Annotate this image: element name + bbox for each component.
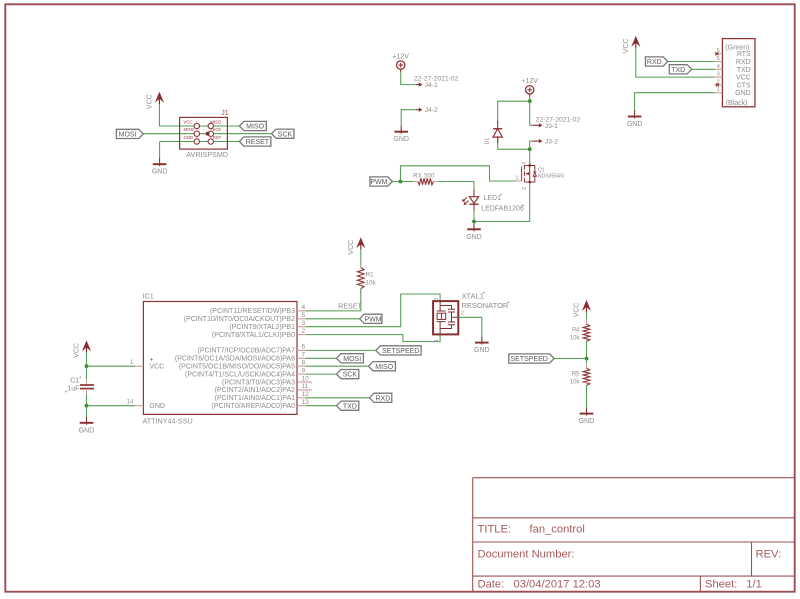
- ground GND (LED): [473, 223, 475, 231]
- wire node to R5: [586, 359, 588, 369]
- junction drain rail: [528, 147, 532, 151]
- svg-text:GND: GND: [466, 234, 482, 241]
- connector FTDI (serial header): [722, 39, 755, 107]
- svg-text:NDS355AN: NDS355AN: [538, 174, 564, 180]
- svg-text:SETSPEED: SETSPEED: [511, 356, 548, 363]
- svg-text:AVRISPSMD: AVRISPSMD: [186, 150, 228, 159]
- net label SCK (IC): [337, 370, 359, 379]
- wire +12V down: [529, 97, 531, 101]
- junction at J1 SCK pad: [206, 132, 210, 136]
- supply +12V (J4): [397, 61, 405, 69]
- wire R3 to LED: [439, 181, 475, 183]
- svg-text:(PCINT10/INT0/OC0A/CKOUT)PB2: (PCINT10/INT0/OC0A/CKOUT)PB2: [184, 316, 295, 323]
- svg-text:SCK: SCK: [343, 372, 358, 379]
- svg-text:1: 1: [515, 176, 518, 182]
- svg-text:GND: GND: [735, 90, 751, 97]
- svg-text:10k: 10k: [570, 335, 581, 341]
- svg-text:+: +: [360, 300, 363, 306]
- svg-text:VCC: VCC: [146, 94, 153, 109]
- svg-text:14: 14: [127, 400, 134, 406]
- connector pin J4-1: [416, 84, 421, 86]
- wire VCC to IC1 pin1: [87, 365, 136, 367]
- svg-text:(PCINT7/ICP/OC0B/ADC7)PA7: (PCINT7/ICP/OC0B/ADC7)PA7: [197, 348, 295, 355]
- svg-text:(PCINT9/XTAL2)PB1: (PCINT9/XTAL2)PB1: [229, 324, 295, 331]
- IC1 pin 14 GND: [135, 405, 143, 407]
- net label PWM (driver): [370, 177, 392, 186]
- svg-text:(PCINT3/T0/ADC3)PA3: (PCINT3/T0/ADC3)PA3: [222, 379, 295, 386]
- svg-text:+12V: +12V: [392, 54, 409, 61]
- svg-text:J4-1: J4-1: [425, 82, 438, 89]
- FTDI pin 1 GND: [715, 92, 723, 94]
- IC1 pin 2 PB0: [297, 334, 306, 336]
- net label RXD (FTDI): [645, 57, 667, 66]
- IC IC1 ATTINY44-SSU: [143, 302, 297, 415]
- wire J1 GND down: [159, 142, 161, 159]
- wire J3-2 to drain rail: [530, 141, 533, 149]
- resistor R4 10k: [586, 319, 588, 346]
- ground GND (XTAL1): [481, 337, 483, 345]
- resistor R5 10k: [586, 363, 588, 390]
- svg-text:PWM: PWM: [364, 316, 381, 323]
- svg-text:(PCINT1/AIN0/ADC1)PA1: (PCINT1/AIN0/ADC1)PA1: [215, 395, 295, 402]
- svg-text:+: +: [500, 193, 503, 199]
- svg-text:MISO: MISO: [246, 124, 264, 131]
- svg-text:GND: GND: [149, 403, 165, 410]
- svg-text:(PCINT8/XTAL1/CLKI)PB0: (PCINT8/XTAL1/CLKI)PB0: [212, 332, 295, 339]
- diode D1: [497, 121, 499, 129]
- svg-text:TXD: TXD: [343, 403, 357, 410]
- wire J4-2 to GND: [401, 110, 416, 126]
- wire GND to J1: [160, 141, 180, 143]
- svg-text:9: 9: [302, 367, 306, 374]
- svg-text:REV:: REV:: [756, 549, 782, 561]
- IC1 pin 4 PB3: [297, 310, 306, 312]
- wire IC1 pin5 to PWM label: [306, 318, 360, 320]
- net label SETSPEED (IC): [376, 346, 421, 355]
- svg-text:11: 11: [302, 383, 309, 390]
- wire R4 to node: [586, 341, 588, 358]
- wire +12V to J4-1: [401, 72, 416, 85]
- svg-text:6: 6: [302, 344, 306, 351]
- svg-text:J4-2: J4-2: [425, 107, 438, 114]
- wire TXD to FTDI: [692, 68, 715, 70]
- wire C1 to GND node: [86, 395, 88, 406]
- LED LED1 LEDFAB1206: [473, 190, 475, 197]
- svg-text:1uF: 1uF: [67, 386, 79, 393]
- resistor R1 10k: [360, 263, 362, 294]
- svg-text:22-27-2021-02: 22-27-2021-02: [536, 116, 581, 123]
- svg-text:CTS: CTS: [737, 82, 751, 89]
- svg-text:GND: GND: [152, 169, 168, 176]
- IC1 pin 6 PA7: [297, 349, 306, 351]
- wire J1 MISO row: [180, 125, 240, 127]
- net label SCK: [272, 129, 294, 138]
- svg-text:1: 1: [130, 360, 134, 366]
- svg-text:ATTINY44-SSU: ATTINY44-SSU: [143, 416, 193, 425]
- svg-text:(PCINT2/AIN1/ADC2)PA2: (PCINT2/AIN1/ADC2)PA2: [215, 387, 295, 394]
- svg-text:D1: D1: [485, 138, 491, 145]
- svg-text:RXD: RXD: [376, 395, 391, 402]
- svg-text:RTS: RTS: [737, 51, 751, 58]
- wire VCC down: [86, 352, 88, 366]
- wire D1 anode to drain rail: [498, 136, 530, 149]
- ground GND (C1): [86, 417, 88, 425]
- svg-text:J3-1: J3-1: [545, 123, 558, 130]
- FTDI pin 4 TXD: [715, 68, 723, 70]
- svg-text:1: 1: [717, 87, 720, 93]
- resistor R3 500: [413, 181, 439, 183]
- IC1 pin 12 PA1: [297, 397, 306, 399]
- ground GND (J4): [400, 126, 402, 134]
- svg-text:J1: J1: [221, 110, 229, 117]
- svg-text:VCC: VCC: [574, 303, 581, 318]
- svg-text:7: 7: [302, 352, 306, 359]
- svg-text:TXD: TXD: [671, 67, 685, 74]
- svg-text:Sheet:: Sheet:: [705, 578, 737, 590]
- net label MOSI (IC): [337, 354, 364, 363]
- svg-text:MOSI: MOSI: [184, 127, 195, 132]
- svg-text:+: +: [79, 375, 82, 381]
- title block: [473, 478, 795, 592]
- net label MISO: [239, 121, 266, 130]
- net label TXD (IC): [337, 401, 359, 410]
- svg-text:MOSI: MOSI: [119, 132, 137, 139]
- svg-text:+: +: [150, 357, 154, 363]
- svg-text:R1: R1: [366, 273, 374, 279]
- svg-text:(PCINT11/RESET/DW)PB3: (PCINT11/RESET/DW)PB3: [210, 308, 295, 315]
- ground GND (FTDI): [634, 111, 636, 119]
- svg-text:RESET: RESET: [246, 139, 270, 146]
- svg-text:10k: 10k: [366, 281, 377, 287]
- junction PWM node: [399, 180, 403, 184]
- wire IC1 pin7 to MOSI label: [306, 357, 337, 359]
- svg-text:10: 10: [302, 375, 310, 382]
- supply VCC (R1): [360, 240, 362, 250]
- svg-text:(Black): (Black): [726, 100, 748, 107]
- svg-text:+: +: [507, 300, 510, 306]
- svg-text:GND: GND: [627, 121, 643, 128]
- wire PWM to Q1 gate: [401, 166, 516, 182]
- supply VCC (R4): [586, 303, 588, 313]
- svg-text:22-27-2021-02: 22-27-2021-02: [414, 76, 459, 83]
- wire LED1 to ground node: [473, 210, 475, 222]
- wire SETSPEED label to node: [554, 358, 586, 360]
- wire to C1 top: [86, 366, 88, 381]
- svg-text:LEDFAB1206: LEDFAB1206: [481, 206, 524, 213]
- svg-text:VCC: VCC: [348, 240, 355, 255]
- svg-text:4: 4: [717, 64, 720, 70]
- svg-text:3: 3: [522, 161, 528, 164]
- svg-text:SCK: SCK: [212, 127, 221, 132]
- wire IC1 pin3 to XTAL1 pin3: [306, 294, 441, 327]
- wire FTDI GND down: [635, 93, 715, 111]
- ground GND (R5): [586, 408, 588, 416]
- svg-text:VCC: VCC: [623, 39, 630, 54]
- svg-text:GND: GND: [79, 427, 95, 434]
- transistor Q1 NDS355AN: [522, 164, 537, 184]
- IC1 pin 9 PA4: [297, 373, 306, 375]
- supply VCC (FTDI): [635, 39, 637, 49]
- wire GND to IC1 pin14: [87, 405, 136, 407]
- svg-text:R4: R4: [572, 327, 580, 333]
- svg-text:5: 5: [302, 312, 306, 319]
- svg-text:SETSPEED: SETSPEED: [382, 348, 419, 355]
- wire VCC to R4: [586, 312, 588, 324]
- wire PWM to junction: [392, 181, 400, 183]
- svg-text:LED1: LED1: [484, 195, 502, 202]
- svg-text:SCK: SCK: [278, 131, 293, 138]
- wire VCC to J1: [159, 103, 179, 126]
- svg-text:RXD: RXD: [647, 59, 662, 66]
- svg-text:R3: R3: [413, 174, 421, 180]
- wire down to LED1: [473, 182, 475, 193]
- wire down to GND: [86, 406, 88, 417]
- wire +12V to J3-1: [530, 101, 533, 125]
- net label MOSI: [116, 129, 143, 138]
- junction LED ground node: [472, 220, 476, 224]
- connector J1 AVRISPSMD: [180, 117, 228, 149]
- svg-text:MISO: MISO: [375, 364, 393, 371]
- junction +12V rail: [528, 99, 532, 103]
- wire Q1 source to ground node: [474, 183, 530, 222]
- svg-text:5: 5: [717, 56, 720, 62]
- IC1 pin 7 PA6: [297, 357, 306, 359]
- svg-text:2: 2: [461, 311, 464, 317]
- svg-text:(PCINT5/OC1B/MISO/DO/ADC5)PA5: (PCINT5/OC1B/MISO/DO/ADC5)PA5: [179, 364, 295, 371]
- svg-text:J3-2: J3-2: [545, 139, 558, 146]
- svg-text:13: 13: [302, 399, 310, 406]
- wire J1 RESET row: [180, 141, 240, 143]
- net label SETSPEED (divider): [509, 354, 554, 363]
- svg-text:GND: GND: [474, 347, 490, 354]
- junction SETSPEED node: [585, 357, 589, 361]
- svg-text:VCC: VCC: [184, 119, 193, 124]
- svg-text:Date:: Date:: [478, 578, 505, 590]
- wire IC1 pin13 to TXD label: [306, 405, 337, 407]
- wire RXD to FTDI: [668, 61, 715, 63]
- svg-text:1/1: 1/1: [746, 578, 762, 590]
- svg-text:PWM: PWM: [370, 179, 387, 186]
- svg-text:(PCINT6/OC1A/SDA/MOSI/ADC6)PA6: (PCINT6/OC1A/SDA/MOSI/ADC6)PA6: [175, 356, 295, 363]
- svg-text:RST: RST: [213, 135, 222, 140]
- IC1 pin 13 PA0: [297, 405, 306, 407]
- svg-text:VCC: VCC: [149, 364, 164, 371]
- wire J1 SCK row: [180, 133, 272, 135]
- connector pin J3-1: [532, 124, 540, 126]
- IC1 pin 1 VCC: [135, 365, 143, 367]
- wire R5 to GND: [586, 386, 588, 409]
- FTDI pin 5 RXD: [715, 61, 723, 63]
- IC1 pin 11 PA2: [297, 389, 312, 391]
- svg-text:RXD: RXD: [736, 59, 751, 66]
- capacitor C1 1uF: [86, 379, 88, 385]
- svg-text:Document Number:: Document Number:: [478, 549, 575, 561]
- wire MOSI to J1: [143, 133, 179, 135]
- wire VCC to R1: [360, 249, 362, 268]
- svg-text:TXD: TXD: [737, 67, 751, 74]
- IC1 pin 5 PB2: [297, 318, 306, 320]
- svg-text:(PCINT4/T1/SCL/USCK/ADC4)PA4: (PCINT4/T1/SCL/USCK/ADC4)PA4: [185, 371, 295, 378]
- svg-text:GND: GND: [579, 418, 595, 425]
- svg-text:GND: GND: [184, 135, 194, 140]
- svg-text:MISO: MISO: [210, 119, 222, 124]
- svg-text:+: +: [522, 203, 525, 209]
- wire PWM to R3: [401, 181, 414, 183]
- svg-text:GND: GND: [393, 136, 409, 143]
- svg-text:12: 12: [302, 391, 310, 398]
- resonator XTAL1 RESONATOR: [433, 301, 458, 334]
- supply +12V (J3): [526, 86, 534, 94]
- net label MISO (IC): [369, 362, 396, 371]
- FTDI pin 3 VCC: [715, 76, 723, 78]
- wire to Q1 drain: [529, 149, 531, 164]
- svg-text:fan_control: fan_control: [530, 523, 585, 535]
- svg-text:MOSI: MOSI: [343, 356, 361, 363]
- svg-text:IC1: IC1: [143, 292, 154, 301]
- svg-text:+: +: [65, 390, 68, 396]
- svg-text:4: 4: [302, 304, 306, 311]
- net label TXD (FTDI): [669, 65, 691, 74]
- no-connect mark RTS: [715, 52, 718, 55]
- no-connect mark CTS: [716, 83, 719, 86]
- wire XTAL1 pin2 to GND: [458, 317, 482, 336]
- wire IC1 pin6 to SETSPEED label: [306, 349, 376, 351]
- wire IC1 pin8 to MISO label: [306, 365, 369, 367]
- connector pin J4-2: [416, 109, 421, 111]
- IC1 pin 8 PA5: [297, 365, 306, 367]
- FTDI pin 2 CTS: [715, 84, 723, 86]
- net label RESET: [239, 137, 271, 146]
- svg-text:10k: 10k: [570, 379, 581, 385]
- wire R1 to IC1 pin4 RESET: [306, 289, 361, 311]
- supply VCC (C1): [86, 343, 88, 353]
- svg-text:VCC: VCC: [74, 343, 81, 358]
- wire to D1 cathode: [498, 101, 530, 122]
- svg-text:(PCINT0/AREF/ADC0)PA0: (PCINT0/AREF/ADC0)PA0: [212, 403, 296, 410]
- svg-text:8: 8: [302, 360, 306, 367]
- svg-text:TITLE:: TITLE:: [478, 523, 512, 535]
- svg-text:+: +: [483, 290, 486, 296]
- wire VCC to FTDI: [636, 48, 715, 78]
- svg-text:500: 500: [424, 174, 435, 180]
- svg-text:+12V: +12V: [521, 78, 538, 85]
- svg-text:RESONATOR: RESONATOR: [462, 301, 509, 310]
- IC1 pin 10 PA3: [297, 381, 312, 383]
- ground GND (J1): [159, 158, 161, 166]
- supply VCC (J1): [158, 95, 160, 105]
- wire IC1 pin2 to XTAL1 pin1: [306, 334, 441, 341]
- svg-text:1: 1: [434, 339, 440, 342]
- svg-text:3: 3: [434, 298, 440, 301]
- svg-text:VCC: VCC: [736, 75, 751, 82]
- wire IC1 pin12 to RXD label: [306, 397, 370, 399]
- FTDI pin 6 RTS: [715, 53, 723, 55]
- IC1 pin 3 PB1: [297, 326, 306, 328]
- svg-text:2: 2: [522, 187, 528, 190]
- svg-text:XTAL1: XTAL1: [462, 291, 484, 300]
- svg-text:3: 3: [302, 320, 306, 327]
- net label PWM (IC): [360, 314, 382, 323]
- svg-text:2: 2: [302, 328, 306, 335]
- wire IC1 pin9 to SCK label: [306, 373, 337, 375]
- svg-text:03/04/2017 12:03: 03/04/2017 12:03: [514, 578, 601, 590]
- junction GND / C1: [85, 404, 89, 408]
- net label RXD (IC): [370, 393, 392, 402]
- junction VCC / C1: [85, 364, 89, 368]
- connector pin J3-2: [532, 140, 540, 142]
- svg-text:R5: R5: [572, 371, 580, 377]
- svg-text:3: 3: [717, 72, 720, 78]
